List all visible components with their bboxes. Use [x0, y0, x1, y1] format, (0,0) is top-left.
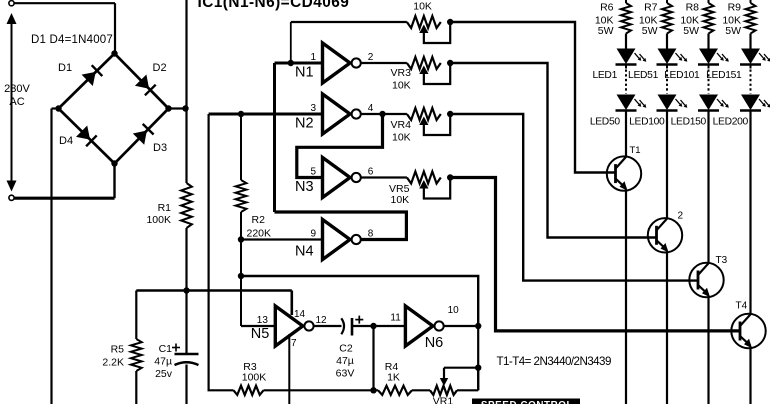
svg-text:LED150: LED150 [671, 117, 707, 128]
svg-text:10K: 10K [413, 1, 432, 13]
resistor R5 [131, 339, 142, 371]
wire: C2 to N6 [352, 325, 405, 327]
wire: N5 input [241, 325, 275, 327]
wire: bridge branch left-top [59, 54, 115, 109]
svg-text:LED151: LED151 [706, 70, 742, 81]
svg-text:4: 4 [368, 103, 374, 114]
LED LED101 [698, 49, 729, 65]
svg-text:R2: R2 [252, 214, 266, 226]
node: C2 bottom junction [370, 387, 376, 393]
wire: IC pin7 line [288, 334, 290, 404]
label D3 [153, 142, 167, 154]
svg-text:AC: AC [9, 96, 24, 108]
wire: bus mid segment [185, 228, 187, 354]
label LED200 [713, 117, 749, 128]
label VR3 [391, 67, 412, 92]
wire: CK pot left wire [291, 21, 407, 23]
potentiometer VR5 [407, 172, 454, 199]
label R6 [595, 1, 614, 37]
svg-text:T4: T4 [736, 301, 748, 312]
node: VR1 wiper junction [475, 365, 481, 371]
label R9 [722, 1, 741, 37]
svg-text:3: 3 [311, 103, 317, 114]
LED LED1 [616, 49, 647, 65]
svg-text:T1: T1 [630, 145, 641, 156]
wire: feedback to R2 node [241, 276, 478, 326]
label T3 [716, 255, 728, 266]
wire: bridge branch left-bottom [59, 109, 115, 164]
label LED51 [628, 70, 659, 81]
wire: N5 output to C2 [314, 325, 342, 327]
svg-text:LED51: LED51 [628, 70, 659, 81]
label R1 [146, 202, 171, 226]
diode D3 [133, 124, 154, 145]
label: IC1 title [198, 0, 350, 11]
svg-text:2.2K: 2.2K [102, 357, 124, 369]
wire: N6 output [444, 325, 478, 327]
svg-text:6: 6 [368, 167, 374, 178]
node: bridge right [165, 105, 171, 111]
node: N3 feedback junction [379, 111, 385, 117]
wire: VR3 to T2 base [450, 63, 656, 238]
svg-text:LED101: LED101 [664, 70, 700, 81]
wire: LED200 to T4 collector [749, 111, 751, 315]
wire: R9 to LED151 [749, 34, 751, 49]
svg-text:LED100: LED100 [629, 117, 665, 128]
node: N6 output junction [475, 323, 481, 329]
wire: N6 output down [477, 326, 479, 390]
label C2 [336, 343, 355, 380]
label R8 [680, 1, 699, 37]
capacitor C2 [341, 316, 363, 336]
svg-text:R9: R9 [728, 1, 742, 13]
node: N4 input junction [238, 236, 244, 242]
label D4 [59, 135, 73, 147]
svg-text:14: 14 [294, 309, 306, 320]
svg-text:13: 13 [257, 315, 269, 326]
wire: R8 to LED101 [707, 34, 709, 49]
svg-text:D3: D3 [153, 142, 167, 154]
resistor R6 [621, 0, 631, 34]
label LED50 [590, 117, 621, 128]
label R4 [385, 361, 400, 384]
label LED100 [629, 117, 665, 128]
svg-text:7: 7 [291, 338, 297, 349]
svg-text:10K: 10K [392, 80, 411, 92]
wire: bridge left stub [52, 107, 59, 109]
svg-text:N4: N4 [295, 244, 314, 260]
svg-text:100K: 100K [242, 372, 267, 384]
label VR5 [389, 183, 410, 206]
svg-text:220K: 220K [247, 227, 272, 239]
label: transistor types [497, 355, 611, 368]
resistor R7 [662, 0, 672, 34]
svg-text:N2: N2 [295, 116, 314, 132]
label R7 [639, 1, 658, 37]
wire: bus below C1 [185, 365, 187, 404]
label T2 [678, 211, 684, 222]
wire: R5 to bottom [135, 371, 137, 404]
node: N1 input junction [288, 60, 294, 66]
svg-text:D2: D2 [153, 62, 167, 74]
node: bottom AC terminal [9, 195, 115, 200]
svg-text:10K: 10K [391, 194, 410, 206]
svg-text:IC1(N1-N6)=CD4069: IC1(N1-N6)=CD4069 [198, 0, 350, 11]
wire: bridge branch bottom-right [115, 109, 169, 164]
potentiometer VR2 (CK) [407, 16, 454, 43]
svg-text:R8: R8 [686, 1, 700, 13]
diode D4 [76, 126, 97, 147]
label VR2 10K [413, 1, 432, 13]
wire: bottom wire R3-R4 [264, 389, 379, 391]
transistor T2 [648, 218, 682, 252]
svg-text:VR4: VR4 [391, 119, 412, 131]
wire: dashed LED string LED51..LED100 [666, 65, 668, 94]
node: bus supply junction [183, 287, 189, 293]
svg-text:2: 2 [678, 211, 684, 222]
node: R2 top junction [238, 111, 244, 117]
wire: dashed LED string LED151..LED200 [750, 65, 752, 94]
op-amp U1 inverter N3 [295, 158, 374, 198]
svg-text:11: 11 [390, 313, 401, 324]
wire: T3 emitter down [707, 295, 709, 404]
wire: N2 output to VR4 [361, 113, 407, 115]
svg-text:T1-T4= 2N3440/2N3439: T1-T4= 2N3440/2N3439 [497, 355, 611, 368]
wire: N4 input [241, 238, 323, 240]
wire: IC pin14 feed [290, 291, 293, 316]
svg-text:C2: C2 [339, 343, 353, 355]
diode D2 [135, 75, 156, 96]
svg-text:25v: 25v [155, 368, 173, 380]
wire: dashed LED string LED101..LED150 [708, 65, 710, 94]
resistor R3 [234, 386, 264, 395]
svg-text:D4: D4 [59, 135, 73, 147]
svg-text:47µ: 47µ [154, 356, 172, 368]
label T4 [736, 301, 748, 312]
svg-text:5: 5 [311, 167, 317, 178]
wire: top AC lead down to bridge [114, 3, 116, 53]
wire: bridge right to bus [169, 107, 187, 109]
op-amp U1 inverter N4 [295, 220, 374, 260]
wire: dashed LED string LED1..LED50 [625, 65, 627, 94]
wire: VR2 to T1 base [450, 22, 615, 173]
svg-text:N6: N6 [425, 335, 444, 351]
wire: N1 input [275, 62, 323, 65]
resistor R9 [746, 0, 756, 34]
wire: LED100 to T2 collector [666, 111, 668, 219]
wire: VR4 to T3 base [450, 114, 698, 281]
svg-text:63V: 63V [336, 368, 355, 380]
label: 230V AC [4, 83, 30, 108]
node: bridge bottom [111, 160, 117, 166]
wire: R2 top lead [240, 114, 242, 180]
wire: bridge branch top-right [115, 54, 169, 109]
wire: N4 feedback loop [275, 212, 407, 240]
resistor R8 [704, 0, 714, 34]
wire: VR1 to riser [457, 368, 478, 391]
svg-text:10K: 10K [392, 132, 411, 144]
label LED1 [592, 70, 617, 81]
label C1 [154, 343, 172, 380]
wire: VR5 to T4 base [450, 178, 740, 331]
svg-text:100K: 100K [146, 214, 171, 226]
svg-text:5W: 5W [598, 25, 614, 37]
resistor R2 [236, 180, 247, 212]
svg-text:5W: 5W [725, 25, 741, 37]
label LED150 [671, 117, 707, 128]
label VR1 [433, 396, 454, 404]
svg-text:R7: R7 [644, 1, 658, 13]
svg-text:47µ: 47µ [336, 355, 354, 367]
label: speed control box [472, 399, 580, 404]
potentiometer VR1 [430, 386, 457, 395]
wire: N1 input riser [290, 22, 292, 63]
node: bridge left [55, 105, 61, 111]
op-amp U1 inverter N6 [390, 305, 459, 351]
label D1 [58, 62, 72, 74]
svg-text:R1: R1 [158, 202, 172, 214]
wire: N1 output to VR3 [361, 62, 407, 64]
wire: bus top segment [185, 0, 187, 183]
transistor T4 [731, 314, 765, 348]
node: top AC terminal [9, 1, 115, 6]
label D2 [153, 62, 167, 74]
wire: T4 emitter down [749, 346, 751, 404]
node: feedback junction [238, 273, 244, 279]
wire: osc line vertical [209, 114, 234, 390]
wire: R4 to VR1 [412, 389, 430, 391]
svg-text:10: 10 [448, 305, 460, 316]
svg-text:8: 8 [368, 229, 374, 240]
wire: R7 to LED51 [666, 34, 668, 49]
wire: N2 input [209, 113, 323, 116]
wire: bridge bottom to AC return [113, 164, 115, 199]
label LED151 [706, 70, 742, 81]
wire: N3 input loop [297, 114, 383, 178]
LED LED200 [740, 95, 770, 111]
svg-text:SPEED CONTROL: SPEED CONTROL [481, 400, 573, 404]
wire: VR1 wiper link [440, 368, 478, 386]
wire: negative line down left side [50, 109, 52, 404]
wire: N1-N2 input vertical [273, 63, 276, 212]
wire: LED50 to T1 collector [625, 111, 627, 158]
svg-text:T3: T3 [716, 255, 728, 266]
label T1 [630, 145, 641, 156]
svg-text:LED200: LED200 [713, 117, 749, 128]
transistor T3 [689, 263, 723, 297]
svg-text:LED50: LED50 [590, 117, 621, 128]
svg-text:VR1: VR1 [433, 396, 454, 404]
svg-text:C1: C1 [159, 343, 173, 355]
op-amp U1 inverter N5 [251, 306, 327, 346]
svg-text:N1: N1 [295, 65, 314, 81]
transistor T1 [607, 156, 641, 190]
wire: T2 emitter down [666, 251, 668, 404]
svg-text:D1: D1 [58, 62, 72, 74]
wire: supply rail to IC [136, 289, 291, 292]
label LED101 [664, 70, 700, 81]
node: bridge top [111, 50, 117, 56]
op-amp U1 inverter N2 [295, 94, 374, 134]
svg-text:230V: 230V [4, 83, 30, 95]
wire: LED150 to T3 collector [707, 111, 709, 264]
label pin7 [291, 338, 297, 349]
wire: R2 to N5 input [240, 212, 242, 326]
wire: N3 output to VR5 [361, 176, 407, 178]
LED LED151 [740, 49, 770, 65]
svg-text:LED1: LED1 [592, 70, 617, 81]
node: bus junction at bridge [182, 105, 188, 111]
svg-text:D1 D4=1N4007: D1 D4=1N4007 [31, 34, 113, 46]
potentiometer VR4 [407, 108, 454, 135]
svg-text:12: 12 [316, 315, 328, 326]
LED LED50 [616, 95, 647, 111]
svg-text:9: 9 [311, 229, 317, 240]
svg-text:R5: R5 [111, 344, 125, 356]
potentiometer VR3 [407, 57, 454, 84]
wire: C2 bottom branch [372, 326, 374, 390]
svg-text:N5: N5 [251, 326, 270, 342]
label: 230V AC source arrow [7, 13, 17, 192]
resistor R1 [181, 183, 192, 228]
svg-text:R6: R6 [600, 1, 614, 13]
diode D1 [82, 65, 103, 86]
svg-text:5W: 5W [683, 25, 699, 37]
label R3 [242, 361, 267, 384]
label R5 [102, 344, 124, 369]
label pin14 [294, 309, 306, 320]
LED LED100 [657, 95, 688, 111]
svg-text:1K: 1K [387, 372, 400, 384]
svg-text:1: 1 [311, 52, 317, 63]
LED LED51 [657, 49, 688, 65]
svg-text:N3: N3 [295, 179, 314, 195]
label VR4 [391, 119, 412, 144]
svg-text:5W: 5W [642, 25, 658, 37]
node: C2 junction [370, 323, 376, 329]
capacitor C1 [172, 344, 199, 366]
label R2 [247, 214, 272, 239]
LED LED150 [698, 95, 729, 111]
wire: T1 emitter down [625, 189, 627, 404]
svg-text:2: 2 [368, 52, 374, 63]
op-amp U1 inverter N1 [295, 43, 374, 83]
wire: R5 branch down [135, 291, 137, 340]
label: D1-D4=1N4007 [31, 34, 113, 46]
svg-text:VR3: VR3 [391, 67, 412, 79]
resistor R4 [378, 386, 412, 395]
wire: R6 to LED1 [625, 34, 627, 49]
